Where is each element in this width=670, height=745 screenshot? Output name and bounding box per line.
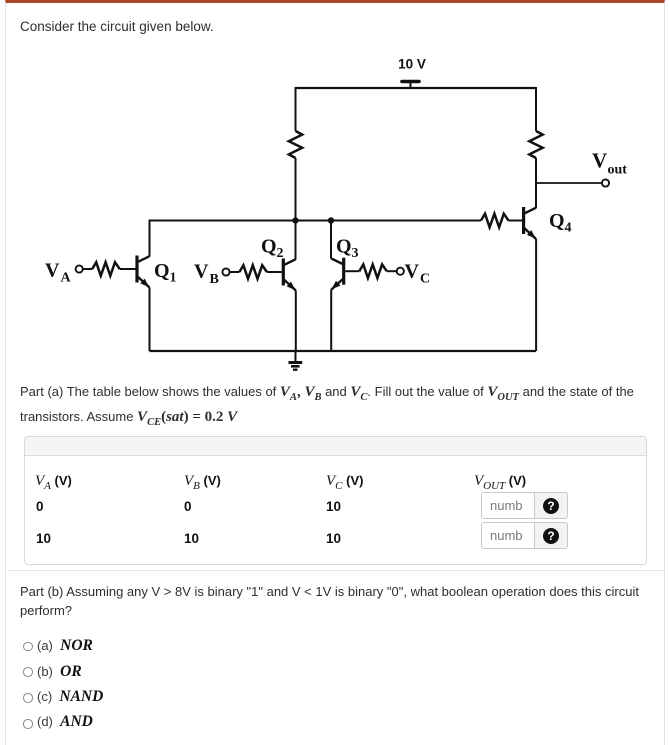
- wire: left vertical to Q1 collector: [149, 220, 151, 257]
- resistor RC (base of Q3): [359, 264, 387, 278]
- transistor Q3 (mirrored): [331, 236, 358, 290]
- wire: VB terminal to RB: [230, 271, 240, 273]
- wire: RC to VC terminal: [387, 270, 397, 272]
- wire: Vout tap: [536, 182, 602, 184]
- wire: right pull-up top segment: [535, 87, 537, 131]
- svg-text:Q: Q: [154, 260, 170, 282]
- resistor RB (base of Q2): [239, 265, 267, 279]
- intro text: [20, 19, 214, 34]
- wire: top supply rail: [296, 87, 537, 89]
- svg-text:Q: Q: [261, 236, 277, 258]
- svg-text:V: V: [405, 261, 420, 283]
- terminal VC: [397, 268, 404, 275]
- wire: N1 down to Q2 collector: [295, 221, 297, 260]
- option (b) OR: [23, 667, 33, 677]
- wire: RB to Q2 base: [267, 271, 282, 273]
- table headers: [35, 473, 72, 492]
- row 1 input group: [481, 492, 535, 519]
- svg-text:1: 1: [170, 271, 177, 286]
- label VC: [405, 261, 431, 287]
- label VB: [194, 261, 219, 288]
- resistor R4 (base of Q4): [481, 214, 509, 228]
- power supply 10 V tap: [398, 57, 426, 89]
- svg-text:3: 3: [352, 246, 359, 261]
- transistor Q4: [524, 207, 572, 239]
- svg-text:out: out: [608, 163, 628, 178]
- svg-text:B: B: [210, 272, 219, 287]
- terminal VB: [222, 268, 229, 275]
- svg-text:V: V: [194, 261, 209, 283]
- table row 2 values: [36, 531, 51, 546]
- table container: [24, 436, 647, 565]
- node N2 (junction dot): [328, 217, 334, 223]
- table row 1 values: [36, 499, 44, 514]
- transistor Q1: [137, 256, 177, 288]
- wire: mid rail (collector bus): [150, 220, 482, 222]
- wire: bottom rail: [150, 350, 537, 352]
- wire: R1 bottom to node N1: [295, 158, 297, 221]
- wire: VA terminal to RA: [83, 268, 92, 270]
- wire: Q3 emitter to bottom rail: [330, 290, 332, 351]
- svg-text:10 V: 10 V: [398, 57, 426, 72]
- part (a) paragraph: [20, 382, 665, 432]
- wire: N2 down to Q3 collector: [330, 221, 332, 259]
- wire: left pull-up top segment: [295, 87, 297, 131]
- svg-text:4: 4: [565, 221, 572, 236]
- option (c) NAND: [23, 693, 33, 703]
- wire: RA to Q1 base: [120, 268, 136, 270]
- resistor R2 (right pull-up): [529, 131, 542, 158]
- svg-text:C: C: [420, 272, 430, 287]
- terminal Vout: [602, 179, 609, 186]
- option (d) AND: [23, 719, 33, 729]
- terminal VA: [76, 265, 83, 272]
- svg-text:A: A: [61, 271, 72, 286]
- wire: Q1 emitter to bottom rail: [149, 288, 151, 352]
- wire: R2 bottom to Q4 collector: [535, 158, 537, 208]
- ground: [289, 351, 303, 370]
- circuit schematic SVG: [0, 0, 670, 385]
- svg-text:2: 2: [277, 246, 284, 261]
- wire: R4 to Q4 base: [509, 220, 523, 222]
- node N1 (junction dot): [292, 217, 298, 223]
- wire: Q4 emitter to bottom rail: [535, 239, 537, 351]
- wire: Q2 emitter to bottom rail: [295, 291, 297, 352]
- label Vout: [592, 149, 627, 178]
- svg-text:Q: Q: [549, 210, 565, 232]
- svg-text:V: V: [592, 149, 607, 173]
- transistor Q2: [261, 236, 296, 291]
- option (a) NOR: [23, 642, 33, 652]
- part (b) divider: [6, 570, 664, 571]
- part (b) paragraph: [20, 582, 668, 620]
- wire: Q3 base to RC: [345, 270, 359, 272]
- row 2 input group: [481, 522, 535, 549]
- resistor RA (base of Q1): [92, 262, 120, 276]
- svg-text:Q: Q: [336, 236, 352, 258]
- resistor R1 (left pull-up): [289, 131, 302, 158]
- label VA: [45, 260, 72, 286]
- svg-text:V: V: [45, 260, 60, 282]
